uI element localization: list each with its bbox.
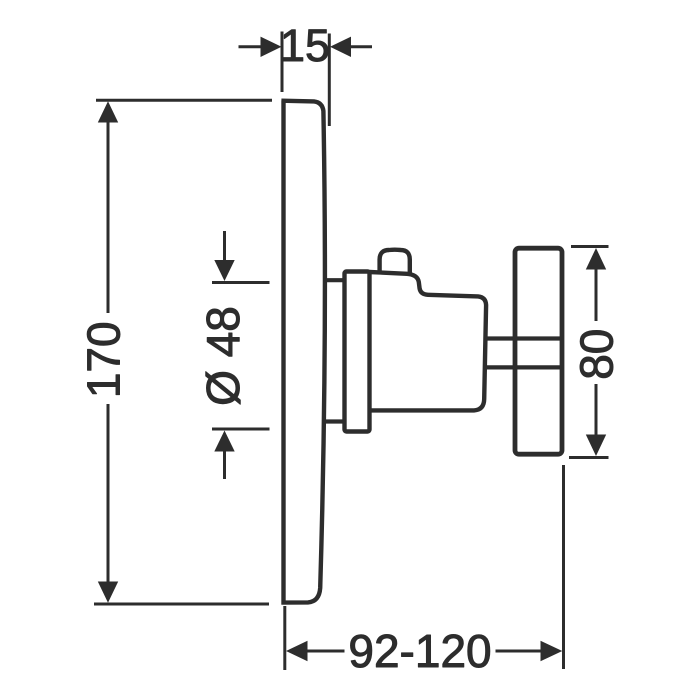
dimension 92-120: left extension line <box>283 606 286 670</box>
dimension 170: bottom extension line <box>94 603 269 606</box>
dimension 170: bottom arrowhead <box>98 582 118 603</box>
svg-text:170: 170 <box>78 321 130 398</box>
dimension 170: top arrowhead <box>98 101 118 122</box>
dimension 15: left extension line <box>281 32 284 93</box>
dimension D48: bottom arrowhead (pointing up) <box>214 431 234 452</box>
dimension D48: bottom arrow stem <box>223 451 226 480</box>
dimension 92-120: right dimension line segment <box>496 650 542 653</box>
mixer body (cartridge housing outline) <box>370 272 487 410</box>
svg-text:15: 15 <box>280 20 330 71</box>
dimension 92-120: right extension line <box>562 465 565 669</box>
dimension 80: bottom arrowhead <box>586 435 606 457</box>
dimension 80: upper dimension line segment <box>595 269 598 322</box>
safety-stop knob on body top <box>380 250 410 274</box>
handle stem (upper line) <box>486 336 562 340</box>
dimension 15: left arrowhead <box>261 37 282 57</box>
svg-text:92-120: 92-120 <box>348 625 491 677</box>
dimension 170: top extension line <box>96 99 272 102</box>
sleeve connecting plate to flange (bottom line) <box>324 419 346 423</box>
dimension 170: lower dimension line segment <box>107 404 110 583</box>
dimension 92-120: left dimension line segment <box>307 650 345 653</box>
dimension 15: right extension line <box>328 34 331 127</box>
dimension 80: lower dimension line segment <box>595 384 598 436</box>
dimension 92-120: right arrowhead (pointing right) <box>541 641 563 661</box>
svg-text:80: 80 <box>571 329 623 380</box>
dimension D48: top extension line <box>212 281 270 284</box>
dimension 80: top extension line <box>571 245 609 248</box>
sleeve connecting plate to flange (top line) <box>324 278 346 282</box>
cross handle vertical bar <box>515 248 562 454</box>
dimension 170: upper dimension line segment <box>107 122 110 314</box>
dimension 80: bottom extension line <box>569 456 609 459</box>
escutcheon plate (wall rosette, side view) <box>281 101 325 605</box>
dimension 92-120: left arrowhead (pointing left) <box>286 641 308 661</box>
dimension 15: right arrow tail <box>350 45 372 48</box>
dimension D48: top arrow stem <box>223 231 226 262</box>
dimension D48: top arrowhead (pointing down) <box>214 260 234 281</box>
svg-text:Ø 48: Ø 48 <box>197 306 249 406</box>
dimension 15: right arrowhead <box>330 37 351 57</box>
handle stem (lower line) <box>486 365 562 369</box>
dimension 80: top arrowhead <box>586 248 606 270</box>
flange (cartridge escutcheon, side view) <box>345 272 370 432</box>
dimension D48: bottom extension line <box>212 428 270 431</box>
dimension 15: left arrow tail <box>239 45 262 48</box>
